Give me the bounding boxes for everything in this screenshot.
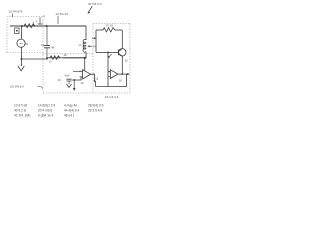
svg-text:4: 4 [36, 20, 38, 24]
svg-text:42 7(4, 8(4): 42 7(4, 8(4) [14, 114, 30, 118]
svg-text:16: 16 [95, 77, 98, 81]
svg-text:14 8(9)1 2.9: 14 8(9)1 2.9 [38, 104, 55, 108]
svg-text:R 15: R 15 [107, 23, 114, 27]
svg-text:4 may 4n: 4 may 4n [64, 104, 77, 108]
svg-text:20: 20 [58, 78, 61, 82]
svg-text:44: 44 [51, 45, 54, 49]
svg-text:16: 16 [125, 59, 128, 63]
svg-text:29 2.9 4.9: 29 2.9 4.9 [88, 109, 102, 113]
svg-text:Ca: Ca [41, 43, 45, 47]
svg-text:18: 18 [119, 78, 122, 82]
svg-text:16 2.6 4.4: 16 2.6 4.4 [105, 95, 119, 99]
svg-text:19: 19 [81, 81, 84, 85]
svg-text:Vref: Vref [64, 73, 69, 77]
svg-text:40 5/4 0-4: 40 5/4 0-4 [88, 2, 102, 6]
svg-text:48 e4 1: 48 e4 1 [64, 114, 75, 118]
svg-text:Zi: Zi [49, 60, 52, 64]
svg-text:28 9(4) 0.9: 28 9(4) 0.9 [88, 104, 104, 108]
svg-text:61: 61 [25, 42, 28, 46]
svg-text:10( 64( 8 9: 10( 64( 8 9 [10, 85, 24, 89]
svg-text:18: 18 [64, 53, 67, 57]
svg-text:L1: L1 [79, 43, 83, 47]
svg-text:4: 4 [43, 14, 45, 18]
svg-text:6.(8)4 1e 4: 6.(8)4 1e 4 [38, 114, 54, 118]
svg-text:12 5/1 03: 12 5/1 03 [56, 12, 69, 16]
svg-text:10 64 679: 10 64 679 [9, 10, 23, 14]
svg-text:44 4(4) 6.4: 44 4(4) 6.4 [64, 109, 80, 113]
svg-text:20 4 mb 8: 20 4 mb 8 [38, 109, 52, 113]
svg-text:40 9.2 ls: 40 9.2 ls [14, 109, 26, 113]
svg-text:10 d7l e8: 10 d7l e8 [14, 104, 27, 108]
